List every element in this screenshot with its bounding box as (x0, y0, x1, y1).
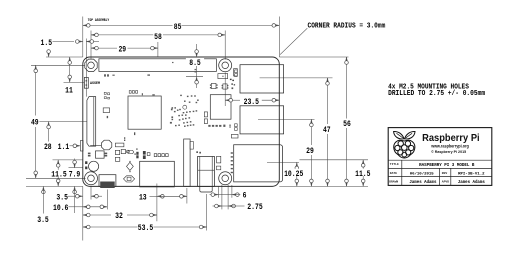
wire: right edge extension above board (278, 17, 280, 58)
wire: USB2 center extension y=119.4 (258, 118, 315, 120)
svg-text:CORNER RADIUS = 3.0mm: CORNER RADIUS = 3.0mm (308, 22, 386, 30)
dim 11.5 left (57, 160, 59, 186)
svg-text:28: 28 (44, 143, 52, 152)
svg-text:James Adams: James Adams (458, 180, 486, 185)
wire: left edge extension above board (82, 17, 84, 58)
wire: left hole extension to 58/85 dims (90, 31, 92, 60)
wire: DSI edge extension x=86.3 (85, 39, 87, 97)
svg-text:DATE: DATE (390, 172, 397, 175)
svg-text:ASSEM: ASSEM (90, 82, 100, 86)
svg-text:53.5: 53.5 (138, 224, 154, 233)
dark pair above inductor (124, 137, 125, 139)
svg-text:6: 6 (243, 192, 247, 201)
dark 8 pair (136, 152, 138, 155)
svg-text:8.5: 8.5 (189, 59, 201, 68)
mid board tiny parts cluster (180, 95, 182, 96)
USB connector stack J1 (240, 65, 284, 93)
dim 2.75 hole diameter (213, 205, 222, 207)
right of SoC tiny parts (171, 109, 173, 111)
svg-text:APVD: APVD (442, 180, 449, 183)
square below (115, 157, 119, 161)
bits right of IC B (231, 83, 233, 84)
ethernet jack J6 (234, 145, 283, 182)
svg-text:58: 58 (154, 33, 162, 42)
dim 85 top (83, 24, 173, 26)
svg-text:Raspberry Pi: Raspberry Pi (422, 132, 480, 144)
LED PWR (85, 161, 87, 164)
HDMI connector J7 (140, 161, 175, 187)
IC with side pads B (223, 84, 227, 89)
dim 8.5 GPIO row (196, 44, 198, 56)
HDMI-top connector with dot (218, 74, 228, 79)
parts left of LAN chip (204, 112, 207, 117)
lens component (124, 176, 135, 182)
svg-text:29: 29 (306, 147, 314, 156)
wire: 7.9 feature extension y=167.6 (69, 167, 84, 169)
wire: 11.5 left feature extension y=159.9 (53, 159, 84, 161)
svg-text:REV: REV (442, 172, 448, 175)
audio jack barrel (200, 186, 212, 192)
svg-text:23.5: 23.5 (244, 98, 260, 107)
svg-text:DRAWN: DRAWN (389, 180, 398, 183)
svg-text:49: 49 (31, 118, 39, 127)
svg-text:10.25: 10.25 (284, 170, 303, 179)
small squares group (115, 150, 119, 154)
wire: left hole extension below (90, 187, 92, 200)
dim 11.5 right (362, 160, 364, 187)
svg-text:TOP ASSEMBLY: TOP ASSEMBLY (88, 19, 110, 23)
dim 6 pad diameter (210, 194, 218, 196)
GPIO header J8 40-pin (99, 59, 216, 72)
svg-text:11: 11 (65, 87, 73, 96)
svg-text:06/10/2015: 06/10/2015 (410, 172, 435, 177)
rect below LAN (231, 134, 238, 138)
svg-text:3.5: 3.5 (56, 193, 68, 202)
USB J2 pins (235, 124, 238, 127)
dim 29 top to GPIO pin1 (91, 47, 117, 49)
wire: bottom edge extension left (26, 185, 83, 187)
mounting hole H3 bottom-left (85, 172, 98, 185)
wire: CSI center extension below (186, 188, 188, 204)
wire: top hole row extension y=65.3 (31, 64, 85, 66)
svg-text:RASPBERRY PI 3 MODEL B: RASPBERRY PI 3 MODEL B (419, 164, 475, 168)
wire: SD center extension y=121.5 (39, 121, 87, 123)
dim 56 right (346, 57, 348, 119)
inductor rect (115, 143, 124, 147)
dim 7.9 left (74, 159, 76, 168)
svg-text:3.5: 3.5 (37, 216, 49, 225)
mounting hole H4 bottom-right (219, 172, 232, 185)
wire: HDMI center extension below (156, 184, 158, 222)
RUN header J5 (84, 77, 88, 88)
dim 10.25 ethernet (296, 162, 298, 186)
raspberry pi logo (394, 131, 415, 158)
dim 11 left (69, 57, 71, 82)
svg-text:TITLE: TITLE (390, 163, 399, 166)
dark bits right of it (230, 79, 232, 80)
wire: audio center extension below (206, 194, 208, 231)
parts near audio jack (217, 156, 221, 163)
dark tall pair (143, 151, 146, 155)
connector near DSI (103, 108, 109, 113)
svg-text:© Raspberry Pi 2015: © Raspberry Pi 2015 (431, 149, 467, 154)
dim 58 top (91, 34, 153, 36)
diamond component (127, 162, 134, 170)
SD slot edge line (90, 144, 101, 146)
svg-text:13: 13 (139, 193, 147, 202)
LED ACT (85, 167, 87, 170)
wire: bottom edge extension right (279, 185, 368, 187)
CSI camera connector J12 (184, 139, 190, 186)
capacitor circle C x7 (89, 161, 99, 171)
component below SoC (134, 132, 135, 135)
wire: top edge extension left (46, 56, 83, 58)
USB J1 pins (235, 70, 238, 73)
wire: microUSB center extension below (106, 190, 108, 210)
svg-text:85: 85 (174, 23, 182, 32)
svg-text:James Adams: James Adams (409, 180, 437, 185)
pair inside header right (195, 69, 197, 70)
svg-text:56: 56 (343, 120, 351, 129)
parts above CSI (196, 151, 198, 153)
wire: ethernet center extension y=162.4 (267, 161, 299, 163)
svg-text:11.5: 11.5 (355, 170, 371, 179)
title block frame (388, 128, 492, 186)
svg-text:RPI-3B-V1_2: RPI-3B-V1_2 (458, 173, 485, 177)
parts below GPIO header (104, 74, 106, 76)
svg-text:11.5: 11.5 (51, 170, 67, 179)
SoC U1 BCM2837 (128, 96, 161, 129)
GPIO header via dot (172, 62, 173, 63)
parts top-left group (104, 92, 106, 94)
wire: right hole extension top (224, 31, 226, 60)
wire: hole pad edge extensions for dia 6 (217, 186, 219, 197)
row of four squares (154, 154, 157, 157)
svg-text:1.1: 1.1 (58, 143, 70, 152)
ethernet pins (231, 152, 233, 153)
svg-text:7.9: 7.9 (69, 170, 81, 179)
USB connector stack J2 (240, 106, 284, 134)
mounting hole H1 top-left octagon pad (85, 59, 97, 71)
square part (147, 153, 150, 156)
dim 47 right (327, 78, 329, 124)
dim 29 right USB2 (310, 119, 312, 145)
wire: USB1 center extension y=77.9 (260, 77, 333, 79)
wire: top edge extension right (279, 56, 348, 58)
parts row below LAN (208, 125, 210, 127)
dim 28 left (48, 50, 50, 56)
vertical part x=234 (234, 69, 238, 76)
DSI display connector J3 (87, 97, 96, 147)
dim 49 left (35, 65, 37, 115)
board outline 85x56 PCB (83, 57, 279, 186)
svg-text:1.5: 1.5 (41, 39, 53, 48)
micro USB power J19 (99, 175, 116, 187)
hex part (128, 150, 134, 153)
svg-text:10.6: 10.6 (53, 204, 69, 213)
mounting hole H2 top-right (219, 59, 232, 72)
SD card protrusion (80, 141, 83, 152)
wire: left edge extension below board (82, 186, 84, 240)
IC with side pads A (211, 83, 216, 88)
svg-text:47: 47 (323, 126, 331, 135)
svg-text:2.75: 2.75 (247, 203, 263, 212)
dim 53.5 audio (83, 226, 138, 228)
corner radius leader (280, 28, 307, 54)
PMIC with side pads (96, 151, 105, 158)
wire: bottom hole row extension y=178.3 (26, 177, 86, 179)
dim 32 HDMI (83, 214, 111, 216)
dim 3.5 hole offset y lower-left (42, 186, 46, 193)
power circuit octagon component (101, 140, 111, 150)
SoC pin1 marks (129, 91, 131, 94)
wire: GPIO pin1 extension x=157.9 (157, 42, 159, 57)
svg-text:32: 32 (115, 212, 123, 221)
wire: RUN header center extension y=82.4 (64, 81, 85, 83)
wire: 11.5 right feature extension y=159.8 (300, 159, 369, 161)
svg-text:www.raspberrypi.org: www.raspberrypi.org (430, 144, 469, 149)
svg-text:29: 29 (118, 45, 126, 54)
svg-text:DRILLED TO 2.75 +/- 0.05mm: DRILLED TO 2.75 +/- 0.05mm (388, 90, 486, 98)
dim 23.5 right hole to edge (225, 99, 240, 101)
wire: hole edge extensions for dia 2.75 (221, 185, 223, 210)
audio jack J4 (198, 156, 215, 186)
LAN chip U2 (210, 95, 231, 120)
wire: right hole extension below for 23.5 (224, 73, 226, 107)
